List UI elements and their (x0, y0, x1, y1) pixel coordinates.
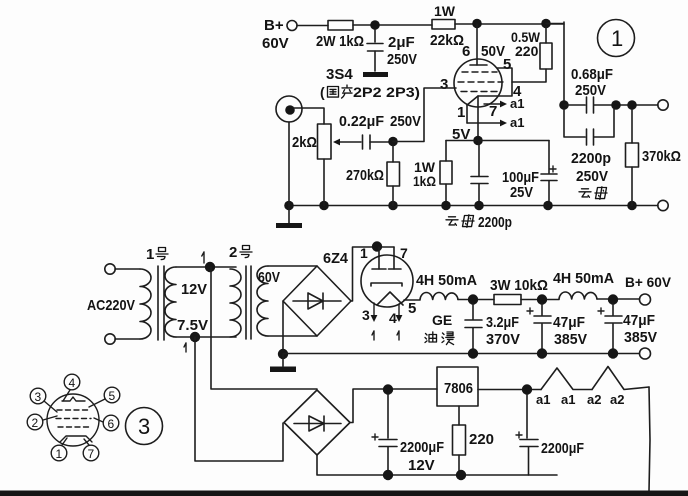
pinout tube envelope (47, 394, 99, 446)
node filter1 (468, 294, 478, 304)
wire jack sleeve to gnd (288, 122, 290, 206)
terminal B+ input (287, 21, 297, 31)
svg-text:B+: B+ (264, 17, 284, 34)
svg-text:370V: 370V (486, 331, 520, 348)
svg-text:2: 2 (229, 244, 237, 261)
tick below pin4 (397, 331, 399, 340)
svg-text:385V: 385V (624, 329, 657, 346)
capacitor C7 3.2uF 370V (472, 303, 474, 319)
svg-text:a1: a1 (510, 115, 524, 130)
svg-text:AC220V: AC220V (87, 297, 135, 314)
transformer T1 core (158, 266, 164, 340)
node gnd 2200p (474, 201, 484, 211)
svg-text:3: 3 (138, 414, 150, 439)
node rail3 (608, 348, 618, 358)
svg-text:60V: 60V (258, 269, 280, 286)
svg-text:6Z4: 6Z4 (323, 250, 349, 267)
node coupling left (559, 100, 569, 110)
svg-text:B+ 60V: B+ 60V (625, 274, 672, 290)
tube U2 filament (377, 292, 403, 305)
pin 7 circle (83, 445, 99, 461)
svg-text:GE: GE (432, 312, 452, 328)
wire R2 to plate rail (455, 23, 564, 25)
node gnd jack (284, 201, 294, 211)
svg-text:250V: 250V (387, 51, 417, 68)
svg-text:5: 5 (109, 389, 116, 403)
svg-text:7: 7 (489, 103, 497, 120)
svg-text:4H 50mA: 4H 50mA (553, 270, 614, 287)
svg-text:1: 1 (146, 246, 154, 263)
svg-text:1: 1 (360, 245, 368, 261)
pin 5 circle (104, 387, 120, 403)
resistor R3 1W 1k cathode (445, 141, 447, 162)
capacitor C4 0.22uF 250V (363, 135, 371, 149)
tube U2 cathode (371, 283, 402, 286)
wire bridge2 plus to 7806 (350, 389, 437, 423)
capacitor C5 0.68uF 250V (564, 97, 658, 113)
node 7806 in (383, 384, 393, 394)
wire 7.5V bottom tap down (195, 337, 283, 461)
svg-text:a2: a2 (587, 392, 601, 407)
svg-text:6: 6 (108, 417, 115, 431)
wire bridge minus to gnd (282, 301, 284, 354)
svg-text:1: 1 (56, 447, 63, 461)
transformer T2 core (246, 266, 251, 339)
node secondary bottom (190, 332, 200, 342)
terminal AC top (105, 264, 115, 274)
wire jack to pot (294, 108, 324, 124)
terminal output gnd (658, 200, 668, 210)
wire B+ to R1 (297, 25, 328, 27)
node rail c10 (383, 470, 393, 480)
node filter2 (537, 294, 547, 304)
node rail r8 (456, 470, 466, 480)
node main gnd (278, 349, 288, 359)
svg-text:3: 3 (362, 307, 370, 323)
capacitor C3 100uF 25V (548, 141, 550, 174)
pot wiper arrow (339, 141, 361, 143)
bridge rectifier D2 (284, 390, 350, 455)
node coupling right (611, 100, 621, 110)
svg-text:60V: 60V (262, 35, 289, 52)
pin 2 circle (27, 414, 43, 430)
wire pin1 (466, 105, 468, 123)
node filter3 (608, 294, 618, 304)
pin 4 circle (64, 374, 80, 390)
svg-text:22kΩ: 22kΩ (430, 32, 464, 49)
node output rail (541, 19, 551, 29)
wire 12V top tap down to bridge2 (211, 267, 317, 389)
svg-text:a2: a2 (610, 392, 624, 407)
svg-text:5: 5 (408, 300, 416, 317)
svg-text:2: 2 (32, 416, 39, 430)
svg-text:1W: 1W (434, 3, 456, 19)
capacitor C10 2200uF 12V (387, 394, 389, 438)
transformer T1 primary winding (140, 269, 151, 339)
pinout plate (62, 397, 85, 401)
svg-text:270kΩ: 270kΩ (346, 167, 384, 184)
svg-text:4: 4 (389, 310, 397, 326)
svg-text:220: 220 (515, 43, 539, 59)
ground bar under C1 (363, 72, 388, 77)
svg-text:3: 3 (440, 76, 448, 93)
resistor R4 270k (392, 145, 394, 162)
svg-text:1kΩ: 1kΩ (413, 173, 436, 189)
potentiometer RP 2k (318, 124, 332, 159)
wire pin6 drop (476, 24, 478, 65)
svg-text:47μF: 47μF (623, 312, 655, 329)
tube U1 filament (467, 96, 478, 105)
label mica 2200p (446, 217, 458, 226)
pin 6 circle (103, 415, 119, 431)
svg-text:6: 6 (462, 43, 470, 60)
terminal gnd out (640, 348, 651, 359)
wire pin7 filament drop (477, 96, 479, 137)
svg-text:4H 50mA: 4H 50mA (416, 272, 477, 289)
pin 5 wire (404, 299, 420, 301)
node 370k top (627, 100, 637, 110)
diode D1 (293, 300, 341, 302)
wire bridge2 minus to rail (317, 455, 557, 475)
svg-text:a1: a1 (561, 392, 575, 407)
tube U1 side notch pins 5/4 (478, 68, 512, 96)
svg-text:7: 7 (88, 447, 95, 461)
wire down right edge (649, 387, 650, 491)
svg-text:47μF: 47μF (553, 314, 585, 331)
svg-text:2200p: 2200p (571, 150, 611, 167)
node grid (388, 137, 398, 147)
node gnd 1k (441, 201, 451, 211)
regulator U3 7806 (437, 367, 478, 406)
node A (370, 20, 380, 30)
filament link a2 (592, 367, 649, 390)
svg-text:370kΩ: 370kΩ (642, 148, 681, 165)
phase tick top (202, 252, 204, 263)
resistor R8 220 (458, 406, 460, 425)
pinout grids (57, 409, 90, 411)
svg-text:3W 10kΩ: 3W 10kΩ (490, 277, 548, 294)
marker circle 1 (598, 20, 635, 57)
capacitor C8 47uF 385V (541, 303, 543, 315)
node gnd pot (319, 201, 329, 211)
node gnd 100uF (543, 201, 553, 211)
node gnd 370k (627, 201, 637, 211)
svg-text:a1: a1 (510, 96, 524, 111)
wire output rail right (546, 22, 564, 105)
transformer T1 secondary winding (165, 267, 176, 337)
node rail1 (468, 348, 478, 358)
svg-text:0.68μF: 0.68μF (571, 66, 613, 83)
svg-text:50V: 50V (481, 43, 505, 60)
svg-text:3.2μF: 3.2μF (486, 314, 519, 331)
tube U2 envelope (361, 255, 413, 307)
tube U1 3S4 plate bar (470, 64, 487, 66)
node plate (472, 19, 482, 29)
resistor R6 370k (631, 109, 633, 143)
svg-text:1: 1 (611, 26, 623, 51)
svg-text:12V: 12V (408, 457, 435, 474)
wire R1 to R2 (353, 24, 432, 26)
svg-text:5: 5 (503, 56, 511, 73)
bridge rectifier D1 (283, 266, 351, 336)
svg-text:7.5V: 7.5V (177, 317, 208, 334)
svg-text:2200μF: 2200μF (541, 440, 584, 457)
node 7806 out (522, 384, 532, 394)
svg-text:3S4: 3S4 (326, 66, 353, 83)
svg-text:250V: 250V (390, 113, 421, 130)
tick below pin3 (372, 331, 374, 340)
capacitor C2 2200p mica (478, 141, 480, 177)
bottom scan bar (0, 491, 688, 496)
pin 1 circle (51, 445, 67, 461)
node secondary top (205, 262, 215, 272)
capacitor C11 2200uF (526, 394, 528, 438)
svg-text:3: 3 (35, 390, 42, 404)
svg-text:12V: 12V (181, 281, 207, 298)
terminal output hot (658, 100, 668, 110)
svg-text:7806: 7806 (444, 380, 473, 397)
svg-text:220: 220 (469, 431, 494, 448)
svg-text:2μF: 2μF (388, 34, 415, 51)
capacitor C6 2200p 250V mica (564, 109, 614, 145)
svg-text:250V: 250V (576, 168, 608, 185)
pin 4 arrow (398, 304, 400, 316)
svg-text:a1: a1 (536, 392, 550, 407)
ground rail top section (289, 205, 658, 207)
transformer T2 primary winding (230, 269, 241, 337)
ground symbol (288, 206, 290, 224)
input jack J1 (276, 96, 302, 122)
capacitor C1 2uF 250V (374, 29, 376, 42)
svg-text:2P2 2P3): 2P2 2P3) (353, 84, 420, 100)
node 6Z4 plate (372, 241, 382, 251)
wire secondary bottom (176, 336, 236, 338)
node rail2 (537, 348, 547, 358)
wire secondary top (176, 266, 236, 268)
marker circle 3 (126, 408, 163, 445)
terminal B+ out (640, 294, 651, 305)
svg-text:4: 4 (69, 376, 76, 390)
svg-text:0.22μF: 0.22μF (339, 113, 384, 130)
arrow a1 top (484, 103, 503, 105)
pin 3 circle (30, 388, 46, 404)
wire AC terminals to primary (115, 269, 140, 339)
ground rail middle (283, 353, 639, 355)
svg-text:2200μF: 2200μF (400, 439, 444, 456)
pinout cathode (60, 436, 92, 442)
wire 7806 out (478, 389, 541, 391)
node gnd 270k (388, 201, 398, 211)
diode D2 (294, 423, 341, 425)
arrow a1 bottom from pin bar (467, 122, 503, 124)
svg-text:250V: 250V (575, 82, 606, 99)
svg-text:(: ( (320, 84, 325, 100)
ground symbol main (282, 354, 284, 366)
svg-text:2200p: 2200p (478, 214, 512, 231)
transformer T2 secondary winding 60V (257, 266, 268, 336)
capacitor C9 47uF 385V (612, 303, 614, 315)
wire 5V rail (446, 140, 549, 142)
resistor R1 2W 1k (328, 21, 353, 31)
phase tick bottom (184, 343, 186, 352)
svg-text:2kΩ: 2kΩ (292, 134, 317, 151)
wire 60V top to bridge (268, 265, 317, 267)
pin 3 arrow (373, 303, 375, 316)
svg-text:2W 1kΩ: 2W 1kΩ (316, 33, 364, 50)
svg-text:1: 1 (457, 104, 465, 121)
svg-text:385V: 385V (554, 331, 587, 348)
wire bridge plus to 6Z4 plates (351, 247, 394, 301)
terminal AC bottom (105, 334, 115, 344)
filament link a1 (541, 368, 592, 390)
svg-text:25V: 25V (510, 184, 533, 201)
tube U1 grids (dashed) (462, 71, 497, 73)
tube U1 envelope (454, 59, 502, 107)
wire 60V bottom to bridge (268, 335, 317, 337)
node cathode rail (473, 136, 483, 146)
wire node to grid pin 3 (393, 88, 456, 142)
